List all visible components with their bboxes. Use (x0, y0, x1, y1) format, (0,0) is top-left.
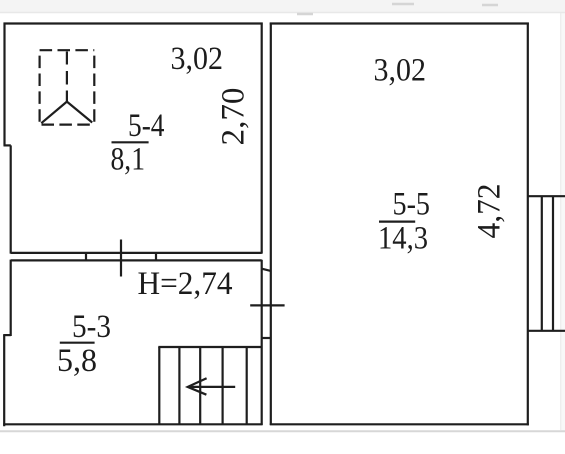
hatch symbol diagonal left (41, 102, 67, 124)
faint scan edge line right (560, 13, 562, 430)
wall left upper (3, 23, 5, 146)
svg-text:2,70: 2,70 (216, 88, 252, 146)
wall bottom of left block (3, 423, 262, 425)
balcony top edge (528, 195, 565, 197)
svg-text:14,3: 14,3 (378, 221, 428, 257)
partition line lower between rooms 5-4 and 5-3 (11, 259, 262, 261)
wall top of room 5-5 (270, 22, 529, 24)
svg-text:5-4: 5-4 (128, 108, 165, 144)
wall connector mark lower in double wall (262, 337, 271, 339)
fraction line room 5-3 (60, 342, 95, 344)
wall left middle lower (10, 260, 12, 336)
wall right of left block upper (261, 23, 263, 254)
hatch symbol left dashed edge (38, 50, 40, 124)
hatch symbol bottom dashed edge (40, 123, 95, 125)
wall bottom of room 5-5 (270, 423, 529, 425)
faint cropped text marks top (297, 4, 498, 14)
stair tread 1 (158, 347, 160, 424)
stair tread 2 (178, 347, 180, 424)
wall connector mark upper in double wall (262, 269, 271, 271)
stair tread 3 (199, 347, 201, 424)
stair direction arrow shaft (188, 386, 235, 388)
partition line upper between rooms 5-4 and 5-3 (11, 252, 262, 254)
partition jamb tick left (85, 252, 87, 261)
stairs top edge (158, 346, 261, 348)
svg-text:Н=2,74: Н=2,74 (138, 266, 233, 302)
stair arrow head (188, 378, 207, 395)
wall jog lower-left (3, 334, 11, 336)
fraction line room 5-5 (379, 221, 415, 223)
svg-text:5-3: 5-3 (72, 309, 111, 345)
faint gray scan band top (0, 0, 565, 12)
partition jamb tick right (155, 252, 157, 261)
svg-text:3,02: 3,02 (171, 41, 224, 77)
hatch symbol diagonal right (67, 102, 92, 123)
wall jog upper-left (4, 144, 11, 146)
balcony rail line 2 (552, 196, 554, 331)
faint gray scan band right (562, 12, 565, 431)
wall right of left block lower (261, 260, 263, 425)
fraction line room 5-4 (112, 141, 149, 143)
wall left middle (10, 145, 12, 253)
gray floor line bottom full width (0, 430, 565, 432)
wall top of left block (4, 22, 263, 24)
stair tread 4 (222, 347, 224, 424)
hatch symbol right dashed edge (93, 50, 95, 124)
wall right of room 5-5 (527, 23, 529, 426)
wall left lower (3, 335, 5, 426)
wall left of room 5-5 (270, 23, 272, 426)
section tick crossing double wall (250, 304, 284, 306)
hatch dashed rectangle symbol in room 5-4 (40, 50, 95, 124)
section mark vertical through partition (120, 240, 122, 277)
svg-text:8,1: 8,1 (111, 142, 146, 178)
stair tread 5 (246, 347, 248, 424)
hatch symbol center dashed line (66, 52, 68, 102)
svg-text:5-5: 5-5 (393, 187, 431, 223)
svg-text:4,72: 4,72 (472, 184, 508, 239)
svg-text:3,02: 3,02 (374, 53, 427, 89)
faint scan edge line top (0, 12, 565, 14)
balcony rail line 1 (541, 196, 543, 331)
svg-text:5,8: 5,8 (57, 343, 97, 379)
balcony bottom edge (528, 330, 565, 332)
